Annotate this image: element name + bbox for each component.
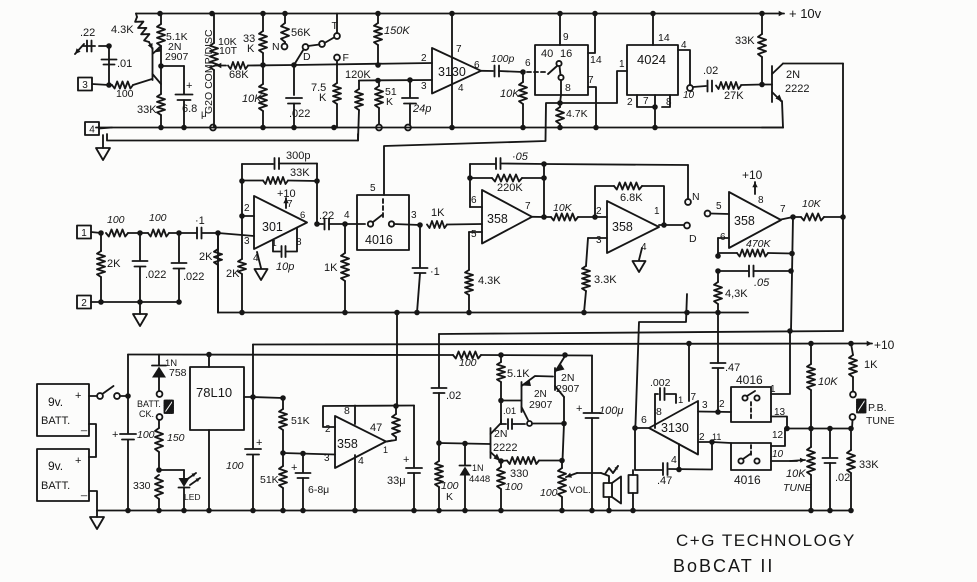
svg-text:4016: 4016 (365, 233, 393, 247)
resistor 33K (Q1) (137, 94, 165, 130)
resistor 5.1K (bottom) (497, 355, 530, 400)
svg-text:10T: 10T (219, 45, 238, 57)
wire 68K line to 3130 pin2 (294, 62, 432, 68)
wire U8 pin6 net (715, 238, 729, 259)
svg-text:BATT.: BATT. (41, 480, 70, 492)
wire U12 pin13 (771, 417, 787, 429)
svg-text:33K: 33K (859, 459, 879, 471)
wire U11 pin3 out (698, 409, 731, 415)
resistor 33K (fb) (242, 167, 317, 184)
node C3 U9 out node (250, 394, 283, 400)
node C9 (498, 398, 504, 404)
wire bus to 5.1K (481, 354, 592, 357)
svg-text:.02: .02 (835, 472, 850, 484)
svg-text:1K: 1K (864, 359, 878, 371)
wire input ground bus (101, 301, 179, 303)
svg-text:1: 1 (81, 228, 87, 239)
svg-text:D: D (689, 233, 697, 245)
svg-text:TUNE: TUNE (866, 415, 895, 427)
svg-text:D: D (303, 51, 311, 63)
switch contact C (.01) (527, 421, 564, 426)
potentiometer VOL 100 (540, 461, 591, 514)
diode 1N4448 (460, 444, 491, 514)
svg-text:F: F (343, 52, 349, 64)
wire battery series link (89, 424, 96, 457)
resistor 1K (to gnd) (324, 224, 349, 315)
wire U10 pin2/8 loop (323, 406, 414, 428)
svg-text:6: 6 (525, 58, 531, 69)
wire to 301 pin3 (218, 233, 254, 236)
capacitor .022 (b) (172, 233, 205, 305)
switch contact N (272, 41, 287, 53)
svg-text:TUNE: TUNE (783, 482, 813, 494)
label U5 pin3 (411, 210, 417, 221)
svg-text:3: 3 (324, 453, 330, 464)
svg-text:.47: .47 (657, 475, 672, 487)
capacitor 100p (481, 53, 523, 77)
svg-text:.05: .05 (754, 277, 770, 289)
svg-text:.01: .01 (503, 406, 516, 417)
capacitor .02 (tune) (823, 429, 851, 514)
wire U5 dashed control (370, 183, 383, 220)
ground arrow inputs (133, 302, 147, 326)
svg-text:K: K (319, 92, 327, 104)
svg-text:24p: 24p (412, 103, 431, 115)
svg-text:BATT.: BATT. (137, 399, 161, 409)
svg-text:+: + (112, 429, 118, 441)
node B3 (176, 230, 182, 236)
op-amp U8 358 (729, 192, 781, 248)
capacitor 6.8u (176, 80, 208, 130)
resistor 100 (a) (106, 214, 140, 237)
node B6 U4 output (314, 221, 320, 227)
wire U3 pin14 (650, 11, 670, 45)
wire bus L3 (+10 regulated) (253, 344, 851, 345)
capacitor .05 (fb) (470, 151, 544, 169)
node B5 pin2 node (239, 164, 254, 219)
svg-text:100μ: 100μ (599, 405, 623, 417)
transistor Q5 2N2907 (outer) (555, 356, 580, 424)
wire to U10 pin3 (283, 451, 335, 457)
label 5.1K 2N 2907 (165, 31, 189, 63)
svg-text:2K: 2K (226, 268, 240, 280)
svg-text:2K: 2K (199, 251, 213, 263)
svg-text:4: 4 (358, 455, 364, 467)
svg-text:2: 2 (596, 206, 602, 217)
resistor 2K (input 1) (97, 233, 121, 305)
wire tune bus (784, 426, 854, 432)
svg-text:10K: 10K (500, 88, 520, 100)
IC U12 4016 (upper) (731, 373, 771, 422)
label 4.3K (111, 24, 134, 36)
label 2N 2222 (785, 69, 809, 95)
svg-text:470K: 470K (746, 238, 772, 250)
wire second lower bus from input 4 (107, 134, 358, 141)
switch inside U5 (368, 215, 394, 227)
svg-text:5.1K: 5.1K (507, 368, 530, 380)
switch power on/off (89, 386, 120, 399)
resistor 120K (345, 69, 371, 141)
svg-text:330: 330 (133, 480, 151, 492)
svg-text:51K: 51K (291, 415, 310, 427)
input terminal 4 (85, 122, 112, 135)
node B1 (98, 230, 104, 236)
svg-text:10: 10 (683, 90, 695, 101)
capacitor 6.8u (bottom) (291, 454, 329, 514)
svg-text:4016: 4016 (736, 373, 763, 387)
node A3 Q1 collector net (158, 46, 184, 94)
switch armature D2-5 (705, 201, 729, 216)
op-amp U11 3130 (left-pointing) (649, 401, 698, 455)
node A2 junction 100 (106, 82, 112, 88)
node A4 68K output junction (291, 62, 297, 95)
svg-text:4,3K: 4,3K (725, 288, 748, 300)
ground arrow U4 pin4 (255, 252, 268, 280)
ground arrow battery (90, 511, 104, 530)
resistor 51K (upper) (279, 398, 310, 453)
capacitor .47 (fb U11) (635, 428, 712, 487)
resistor 2K (to pin2) (226, 216, 246, 315)
node B2 (137, 230, 143, 236)
power +10 arrow U8 (742, 168, 764, 206)
node B8 (394, 222, 423, 228)
svg-text:68K: 68K (229, 69, 249, 81)
node A7 Q2 base junction (759, 82, 765, 88)
wire fb right vertical U6 (541, 164, 547, 217)
label U1 pins (421, 44, 480, 94)
wire U2 pin7 to rail (588, 75, 599, 130)
switch BATT CK (137, 391, 173, 420)
title C+G TECHNOLOGY (676, 531, 856, 550)
switch contact F (334, 52, 349, 83)
ground arrow input 4 (96, 135, 110, 160)
wire U12 pin1 up (771, 328, 793, 394)
svg-text:330: 330 (510, 468, 528, 480)
svg-text:3: 3 (702, 400, 708, 411)
svg-text:358: 358 (337, 437, 358, 451)
svg-text:100: 100 (459, 357, 477, 369)
IC U2 4016 box (535, 45, 588, 95)
svg-text:100p: 100p (491, 53, 515, 65)
wire bottom ground rail (97, 510, 851, 512)
svg-text:4: 4 (671, 454, 677, 466)
resistor 330 (led) (133, 475, 163, 513)
resistor 6.8K (fb) (595, 183, 664, 226)
node B11 U7 output (659, 222, 683, 228)
svg-text:VOL.: VOL. (569, 485, 591, 496)
wire pin3 bus (359, 77, 432, 83)
resistor 4.3K (U6) (465, 232, 501, 315)
svg-text:K: K (247, 43, 255, 55)
wire U7 pin3 (588, 237, 607, 239)
label 33 K (243, 33, 255, 55)
svg-text:1: 1 (678, 395, 683, 406)
wire U10 pin4 (352, 455, 358, 513)
svg-text:2N: 2N (494, 428, 507, 440)
svg-text:7: 7 (780, 204, 786, 215)
node C14 U11 pin6 (632, 425, 649, 431)
wire U2 pin8 to node (560, 80, 571, 103)
svg-text:10K: 10K (553, 202, 573, 214)
svg-text:100: 100 (116, 88, 134, 100)
svg-text:.022: .022 (145, 269, 166, 281)
wire U1 pin7/4 supply (449, 11, 455, 131)
svg-text:358: 358 (612, 220, 633, 234)
svg-text:8: 8 (758, 195, 764, 206)
svg-text:10K: 10K (242, 93, 262, 105)
battery B1 9v (37, 384, 89, 436)
node C13 (559, 424, 565, 464)
input terminal 3 (78, 78, 109, 91)
resistor 100 (emitter) (497, 461, 523, 513)
pot wiper VOL (566, 473, 601, 478)
svg-text:P.B.: P.B. (868, 402, 887, 414)
wire fb right vertical (314, 164, 320, 225)
capacitor .01 (102, 58, 133, 70)
capacitor .47 (top) (711, 362, 741, 374)
resistor 220K (fb) (470, 175, 544, 195)
svg-text:2907: 2907 (529, 399, 553, 411)
svg-text:3: 3 (244, 236, 250, 247)
svg-text:9v.: 9v. (48, 459, 63, 473)
svg-text:T: T (332, 20, 339, 32)
svg-text:4: 4 (681, 40, 687, 51)
resistor 100 (b) (140, 212, 196, 237)
wire fb left vertical (467, 164, 473, 207)
svg-text:9v.: 9v. (48, 395, 63, 409)
svg-text:4024: 4024 (637, 52, 666, 67)
capacitor .022 (a) (133, 233, 167, 305)
svg-text:3: 3 (421, 81, 427, 92)
svg-text:+: + (403, 454, 409, 466)
wire U3 pin4 loop (678, 40, 690, 85)
capacitor .01 (bottom) (501, 406, 525, 429)
svg-text:1: 1 (654, 206, 660, 217)
svg-text:6.8K: 6.8K (620, 192, 643, 204)
resistor 1K (pb) (848, 341, 857, 391)
switch PB TUNE (850, 392, 895, 429)
node B10 U7 pin2 node (592, 214, 598, 220)
svg-text:47: 47 (370, 422, 382, 434)
wire N2 to fb line (541, 161, 688, 167)
svg-text:+10: +10 (874, 338, 895, 352)
wire Q2 collector to right bus (783, 63, 843, 65)
svg-text:150: 150 (167, 432, 185, 444)
svg-text:100: 100 (149, 212, 167, 224)
svg-text:5: 5 (370, 183, 376, 194)
resistor 51K (lower) (260, 453, 287, 513)
resistor 10K (U1 out) (500, 72, 527, 130)
svg-text:.22: .22 (319, 210, 334, 222)
wire U3 bottom pins 2 7 8 (627, 95, 672, 130)
resistor 100 (input 3) (109, 82, 134, 101)
svg-text:358: 358 (734, 214, 755, 228)
resistor 4.3K diagonal (135, 14, 152, 50)
svg-text:K: K (386, 96, 393, 108)
svg-text:+10: +10 (742, 168, 763, 182)
label 10K 10T (218, 36, 238, 57)
label U6 pins (471, 195, 531, 240)
svg-text:1N: 1N (472, 463, 484, 473)
speaker (601, 466, 621, 513)
svg-text:+: + (576, 403, 582, 415)
capacitor .022 (top) (286, 98, 310, 130)
capacitor .22 (coupling) (317, 210, 345, 230)
svg-text:100: 100 (107, 214, 125, 226)
svg-text:1: 1 (619, 59, 625, 70)
label U8 pins (720, 204, 786, 243)
svg-text:·05: ·05 (512, 151, 529, 163)
label U10 pins (324, 405, 388, 467)
input terminal 1 (77, 226, 101, 239)
IC U9 78L10 (190, 367, 244, 430)
svg-text:2: 2 (719, 399, 725, 410)
crystal element (629, 470, 638, 513)
svg-text:5: 5 (471, 229, 477, 240)
resistor 10K (tune top) (807, 341, 838, 429)
op-amp U4 301 (254, 196, 307, 249)
node C8 (498, 352, 504, 358)
resistor 4.7K (556, 103, 588, 130)
wire U8 output vertical (788, 217, 795, 331)
wire U2 pin14 (588, 11, 602, 66)
power +10 arrow bottom (851, 338, 895, 352)
svg-text:+: + (75, 455, 81, 467)
svg-text:7: 7 (525, 201, 531, 212)
resistor 100 (bus) (453, 352, 481, 370)
svg-text:4: 4 (344, 210, 350, 221)
svg-text:220K: 220K (497, 182, 523, 194)
resistor 10K (below 68K) (242, 65, 267, 130)
svg-text:1K: 1K (324, 262, 338, 274)
switch inside U2 (548, 61, 564, 80)
node B4 input node (215, 230, 221, 236)
svg-text:4.7K: 4.7K (566, 108, 588, 120)
svg-text:4: 4 (458, 83, 464, 94)
capacitor .002 (650, 377, 676, 428)
pot wiper arrow (216, 63, 226, 68)
wire U11 pin4 (676, 444, 682, 472)
power +10 arrow U4 (277, 188, 296, 208)
resistor 10K (interstage) (544, 202, 595, 221)
label 40 16 (541, 48, 572, 60)
svg-text:·1: ·1 (430, 266, 440, 278)
node C7 (436, 440, 442, 446)
svg-text:4.3K: 4.3K (111, 24, 134, 36)
svg-text:758: 758 (169, 367, 187, 379)
svg-text:33K: 33K (735, 35, 755, 47)
svg-text:+10: +10 (277, 188, 296, 200)
svg-text:120K: 120K (345, 69, 371, 81)
label U12 pins (719, 384, 786, 418)
switch contact N2 (685, 165, 699, 205)
svg-text:_: _ (80, 420, 88, 432)
capacitor 10p (273, 228, 297, 273)
svg-text:4: 4 (89, 124, 95, 135)
svg-text:12: 12 (772, 430, 784, 441)
svg-text:8: 8 (565, 82, 571, 94)
resistor 56K (281, 11, 311, 44)
svg-text:N: N (692, 191, 700, 203)
wire mid-rail stub down (394, 310, 400, 406)
led LED (159, 470, 201, 513)
capacitor 24p (402, 80, 431, 130)
wire U11 pin7 supply (686, 341, 692, 401)
capacitor .22 input (80, 27, 95, 52)
svg-text:16: 16 (560, 48, 572, 60)
svg-text:8: 8 (656, 406, 662, 418)
resistor 5.1K (157, 11, 165, 46)
svg-text:C+G TECHNOLOGY: C+G TECHNOLOGY (676, 531, 856, 550)
svg-text:.02: .02 (703, 65, 718, 77)
svg-text:14: 14 (658, 32, 670, 44)
capacitor 300p (242, 150, 317, 169)
svg-text:27K: 27K (724, 90, 744, 102)
resistor 33K (second) (259, 11, 267, 68)
battery B2 9v (37, 449, 89, 501)
label U13 pins (772, 430, 784, 460)
svg-text:10K: 10K (786, 468, 806, 480)
switch armature (308, 38, 334, 47)
svg-text:150K: 150K (384, 25, 410, 37)
svg-text:14: 14 (590, 54, 602, 66)
svg-text:2222: 2222 (493, 442, 517, 454)
svg-text:3130: 3130 (661, 421, 689, 435)
svg-text:.22: .22 (80, 27, 95, 39)
transistor Q3 2N2222 (490, 423, 517, 461)
svg-text:100: 100 (505, 481, 523, 493)
wire Q2 emitter to rail (762, 101, 783, 128)
wire U9 output (244, 345, 253, 398)
svg-text:301: 301 (262, 220, 283, 234)
label U4 pins (244, 199, 305, 264)
wire battery minus to gnd (89, 491, 97, 511)
svg-text:10K: 10K (802, 198, 822, 210)
op-amp U10 358 (335, 416, 386, 468)
op-amp U7 358 (607, 201, 659, 253)
IC U13 4016 (lower) (731, 443, 771, 487)
label U7 pins (595, 206, 660, 253)
svg-text:_: _ (80, 485, 88, 497)
switch inside U12 upper (742, 391, 759, 420)
op-amp U6 358 (482, 190, 532, 244)
node C1 battery switch node (120, 355, 131, 399)
IC U3 4024 box (627, 45, 678, 95)
svg-text:3: 3 (596, 235, 602, 246)
wire U6 pin6 stub (470, 206, 482, 208)
resistor 150 (155, 420, 185, 470)
svg-text:7: 7 (691, 392, 697, 403)
wire C9 links (500, 400, 502, 424)
power +10v arrow (762, 6, 822, 21)
svg-text:2K: 2K (107, 258, 121, 270)
label G2O COMP/DISC (203, 29, 215, 114)
wire bus L4 (battery raw) (128, 354, 453, 357)
potentiometer 10K TUNE (783, 429, 815, 514)
title BOBCAT II (673, 556, 774, 576)
input terminal 2 (77, 296, 101, 309)
svg-text:.022: .022 (289, 108, 310, 120)
svg-text:.01: .01 (117, 58, 132, 70)
transistor Q1 2N2907 (153, 46, 162, 84)
node B9 U6 output (532, 214, 547, 220)
svg-text:2N: 2N (786, 69, 800, 81)
svg-text:7: 7 (588, 75, 594, 86)
ground arrow U7 pin4 (633, 248, 646, 272)
svg-text:CK.: CK. (139, 409, 154, 419)
wire top +10v rail (136, 13, 762, 15)
svg-text:300p: 300p (286, 150, 310, 162)
